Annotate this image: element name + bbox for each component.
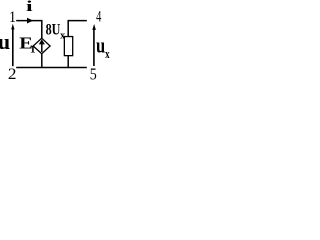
svg-text:i: i — [26, 0, 33, 15]
svg-text:8U: 8U — [46, 22, 61, 39]
svg-text:1: 1 — [30, 43, 36, 55]
voltage arrow ux (right port) — [93, 29, 95, 66]
wire resistor bottom to bottom rail — [67, 56, 69, 68]
current arrow i on top wire — [27, 18, 33, 24]
arrow inside diamond — [41, 44, 43, 53]
wire top-right corner to node 4 terminal and down to resistor — [68, 21, 87, 37]
svg-text:4: 4 — [96, 8, 101, 25]
bottom wire rail — [16, 67, 87, 69]
svg-text:1: 1 — [9, 9, 16, 26]
svg-text:u: u — [96, 32, 105, 57]
voltage arrow u (left port) — [12, 29, 14, 67]
svg-text:x: x — [105, 46, 110, 61]
svg-text:2: 2 — [8, 66, 17, 81]
dependent source E1 diamond — [33, 38, 50, 54]
svg-text:u: u — [0, 29, 10, 54]
wire top-left from node 1 to corner, down to source E1 — [16, 21, 42, 39]
svg-text:5: 5 — [90, 64, 97, 81]
wire from source bottom to bottom rail — [41, 54, 43, 68]
resistor — [64, 37, 72, 56]
